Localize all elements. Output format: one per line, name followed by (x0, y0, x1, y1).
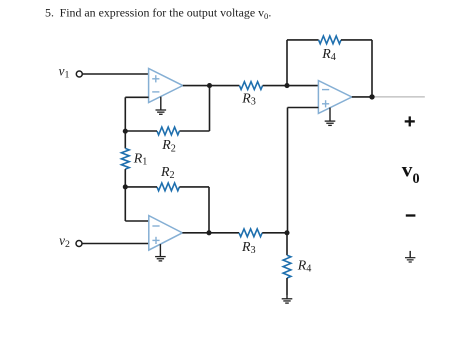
wire down to U2 output junction (208, 187, 210, 233)
wire junction to R3 (bottom) (209, 232, 239, 234)
wire R2 (top) left lead (125, 130, 157, 132)
wire output lead (gray) (375, 96, 425, 98)
wire U3 + input (288, 107, 319, 109)
title text (45, 6, 271, 21)
node v2 label (59, 233, 70, 250)
ground reference at output (405, 251, 415, 262)
resistor R4 (top) (319, 36, 341, 44)
op-amp U2 (149, 216, 183, 251)
label R2 (top) (161, 138, 176, 154)
wire v1 to U1 + (82, 73, 148, 75)
wire R1 top lead (124, 131, 126, 148)
wire down to U2 - level (124, 187, 126, 221)
wire U1 output (183, 85, 210, 87)
ground at U2 (155, 244, 166, 261)
node junction R1-R2 bottom (123, 184, 128, 189)
wire up to U1 - level (124, 97, 126, 131)
wire U3 output (352, 96, 372, 98)
wire to R2 (top) right lead (179, 130, 209, 132)
wire + input vertical down to node B (287, 108, 289, 233)
label R4 (bottom) (297, 258, 312, 274)
wire top-left to R4 (287, 39, 319, 41)
wire from U1 output junction down (209, 86, 211, 131)
terminal v1 (76, 71, 82, 77)
label R3 (top) (241, 91, 256, 107)
wire to U2 - input (125, 220, 149, 222)
resistor R2 (bottom) (157, 183, 179, 191)
resistor R3 (top) (239, 82, 262, 90)
wire R1 bottom lead (124, 169, 126, 187)
wire junction to R3 (210, 85, 240, 87)
terminal v2 (76, 241, 82, 247)
node U2 output junction (206, 230, 211, 235)
svg-text:5.Find an expression for the o: 5.Find an expression for the output volt… (45, 6, 271, 21)
wire node A to U3 - (287, 85, 318, 87)
label v0 output voltage (402, 157, 420, 187)
label R1 (133, 151, 148, 167)
ground at U1 (156, 97, 167, 115)
label R4 (top) (321, 47, 336, 63)
wire to U1 - input (125, 96, 148, 98)
node U1 output junction (207, 83, 212, 88)
wire node B down to R4 (286, 233, 288, 255)
wire node A up (286, 40, 288, 86)
node A junction (284, 83, 289, 88)
label R3 (bottom) (241, 240, 256, 256)
wire R3 to node A (263, 85, 287, 87)
wire R4 (bottom) to ground (286, 278, 288, 296)
wire v2 to U2 + (82, 243, 149, 245)
label R2 (bottom) (160, 165, 175, 181)
node v1 label (59, 63, 70, 80)
output + polarity mark (405, 116, 415, 126)
node junction R1-R2 top (123, 129, 128, 134)
wire U2 output (182, 232, 209, 234)
ground at U3 (325, 108, 336, 126)
op-amp U3 (318, 81, 351, 114)
wire R4 to top-right corner (341, 39, 372, 41)
resistor R4 (bottom) (283, 255, 291, 278)
wire R2 (bottom) left lead (125, 186, 157, 188)
node B junction (284, 230, 289, 235)
resistor R1 (121, 148, 129, 169)
wire right vertical down to output (371, 40, 373, 97)
resistor R3 (bottom) (239, 229, 262, 237)
node output junction (369, 94, 374, 99)
ground at R4 (bottom) (282, 296, 293, 304)
resistor R2 (top) (157, 127, 179, 135)
wire R3 (bottom) to node B (262, 232, 287, 234)
output - polarity mark (406, 214, 416, 216)
op-amp U1 (149, 69, 183, 103)
wire R2 (bottom) right lead (179, 186, 209, 188)
